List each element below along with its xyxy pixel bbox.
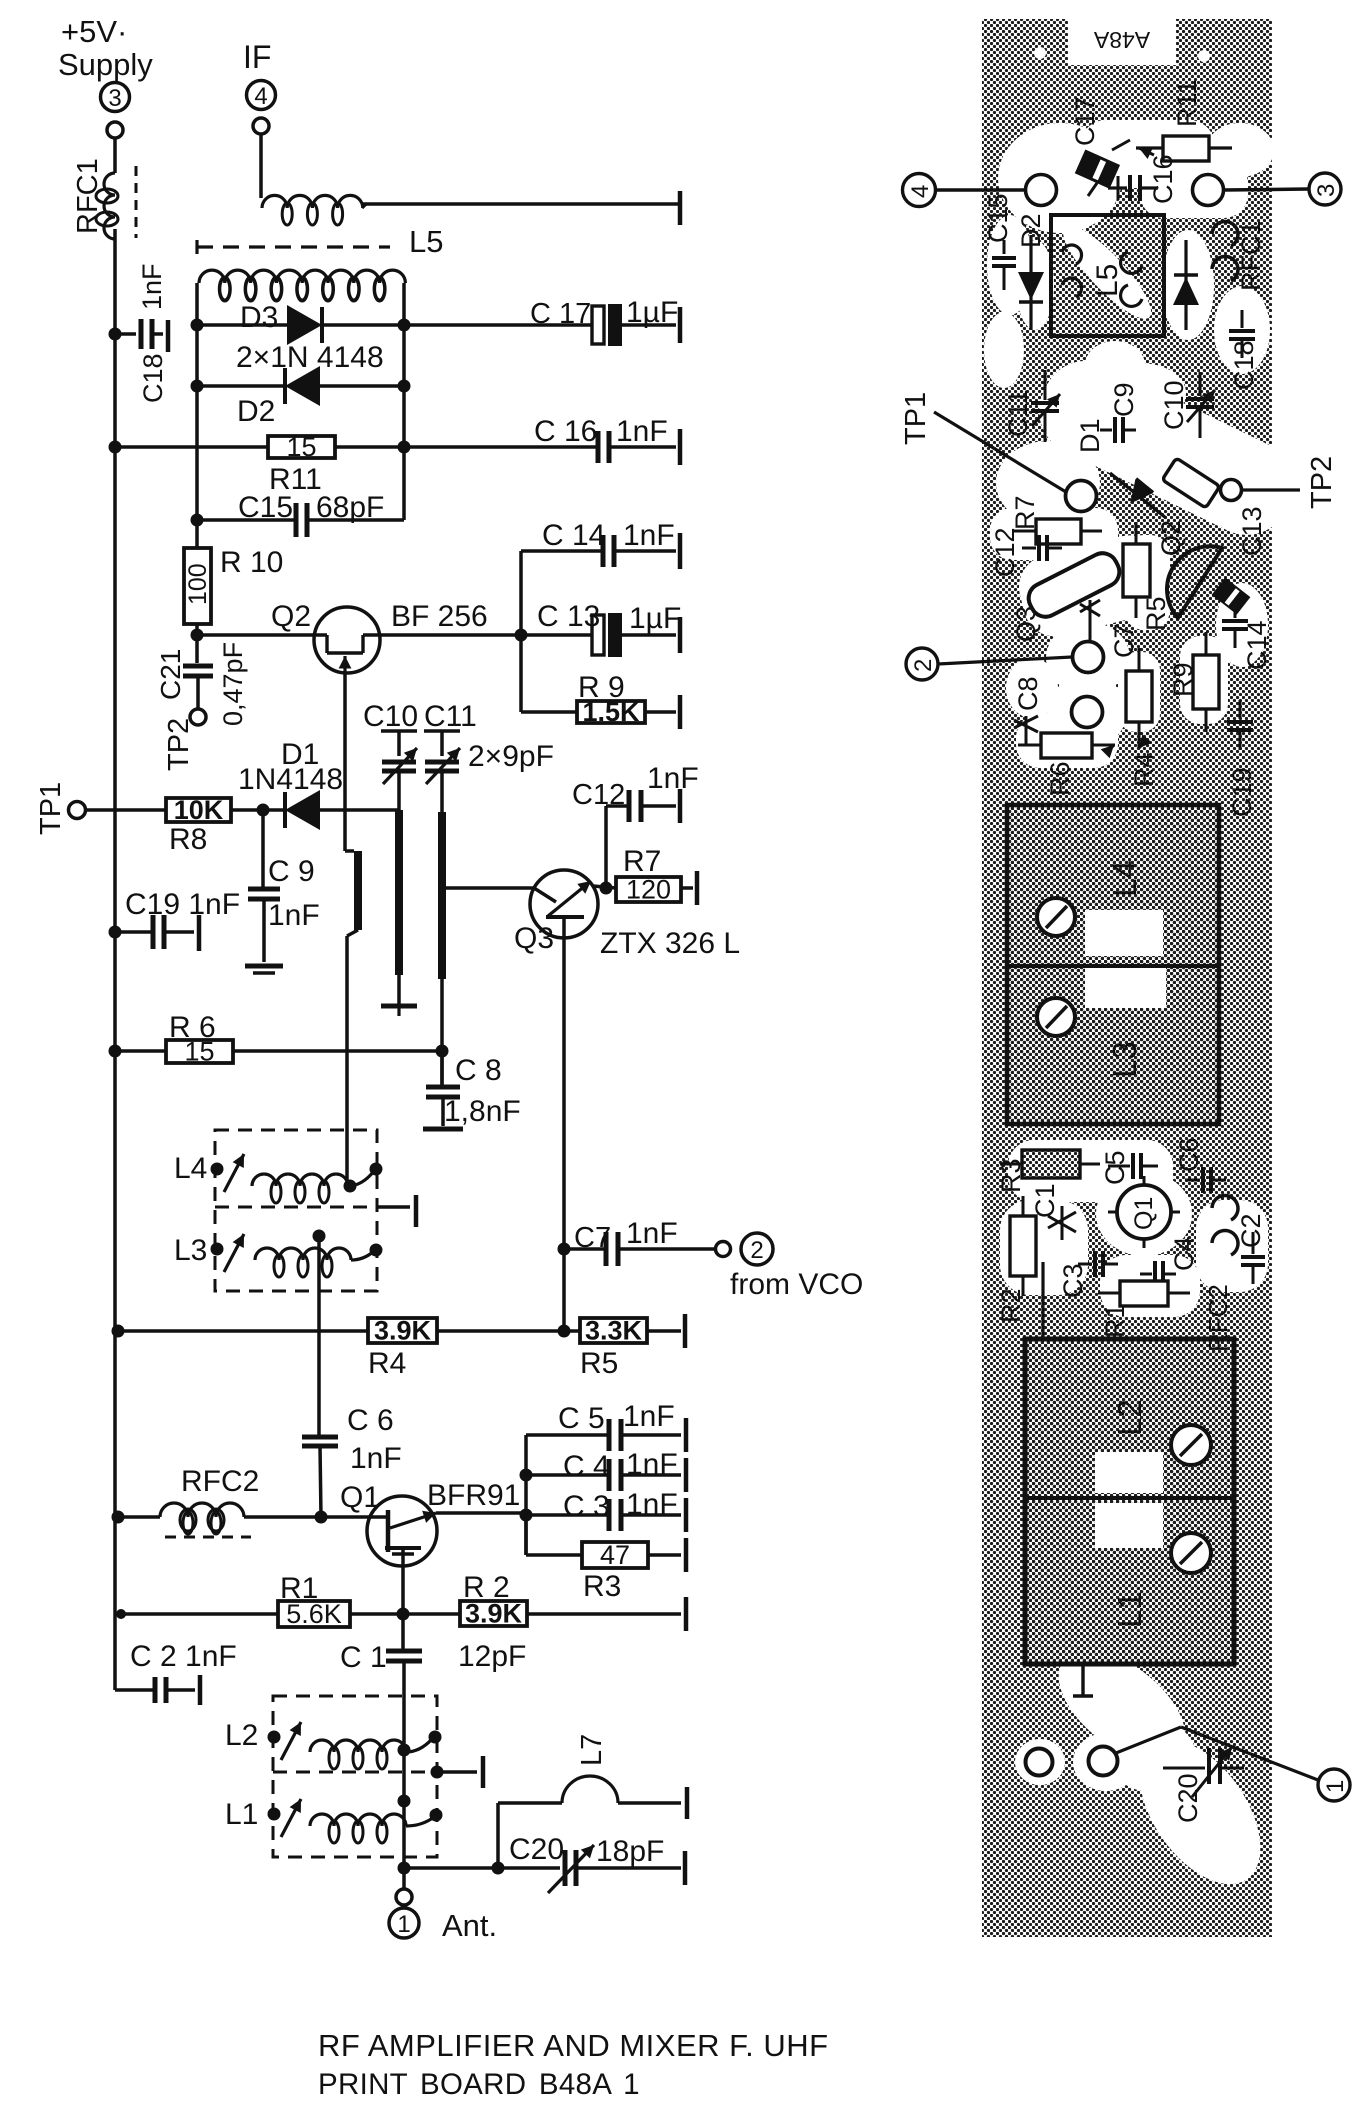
PCB screw hole top right [1198, 50, 1210, 62]
node R1 rail [116, 1609, 126, 1619]
wire RFC2 row [115, 1515, 367, 1519]
svg-text:C7: C7 [574, 1222, 611, 1254]
box L2 L1 shield [273, 1696, 483, 1857]
label 2x1N4148 [236, 341, 384, 374]
PCB resistor R1 [1098, 1281, 1190, 1338]
svg-text:Supply: Supply [58, 47, 153, 82]
svg-text:PRINT BOARD B48A 1: PRINT BOARD B48A 1 [318, 2068, 640, 2101]
capacitor C3 [526, 1488, 686, 1532]
inductor L5 [199, 270, 405, 301]
PCB capacitor C17 [1070, 96, 1130, 196]
svg-text:C 17: C 17 [530, 298, 591, 330]
svg-text:R8: R8 [169, 823, 207, 856]
PCB pad bottom1 [1026, 1749, 1053, 1776]
PCB diode D2 [1016, 213, 1046, 330]
svg-text:1µF: 1µF [626, 296, 678, 329]
svg-text:L5: L5 [409, 224, 443, 259]
inductor L4 [174, 1152, 383, 1203]
PCB label L4 [1106, 860, 1143, 897]
tick IF line end [678, 191, 683, 225]
svg-text:C 13: C 13 [537, 600, 600, 633]
diode D1 [238, 738, 399, 830]
svg-text:C 1: C 1 [340, 1641, 387, 1674]
svg-text:C6: C6 [1174, 1137, 1204, 1172]
node D3 right [398, 319, 411, 332]
svg-text:2×9pF: 2×9pF [468, 740, 554, 773]
svg-text:+5V·: +5V· [61, 14, 127, 49]
PCB capacitor C5 [1100, 1150, 1158, 1185]
PCB screw L3 [1037, 998, 1075, 1036]
svg-text:C19 1nF: C19 1nF [125, 888, 240, 921]
PCB label L3 [1106, 1041, 1143, 1078]
wire Q2 drain [380, 633, 592, 637]
svg-text:4: 4 [907, 185, 934, 198]
label 2x9pF [468, 740, 554, 773]
node D3 left [191, 319, 204, 332]
svg-text:Q1: Q1 [1130, 1197, 1158, 1230]
svg-text:C13: C13 [1237, 506, 1267, 556]
PCB clearing Q3 R5 [1012, 529, 1268, 667]
wire Q3 collector [562, 938, 566, 1331]
capacitor C12 [572, 762, 699, 888]
svg-text:1nF: 1nF [626, 1488, 678, 1521]
ground C8 [423, 1127, 463, 1132]
PCB capacitor C3 [1058, 1251, 1118, 1298]
svg-text:IF: IF [243, 39, 271, 75]
node C18 junction [109, 328, 122, 341]
svg-text:0,47pF: 0,47pF [218, 642, 248, 726]
svg-text:BF 256: BF 256 [391, 600, 488, 633]
resistor R6 [166, 1011, 233, 1067]
svg-text:3: 3 [1313, 184, 1340, 197]
svg-text:C1: C1 [1030, 1183, 1060, 1218]
node RFC2 rail [112, 1511, 125, 1524]
ground stripline C10 [381, 1006, 417, 1016]
svg-text:1nF: 1nF [626, 1448, 678, 1481]
PCB clearing L5 right [984, 230, 1270, 388]
PCB capacitor C14 [1222, 602, 1272, 670]
tick R2 end [684, 1597, 689, 1631]
capacitor C19 [115, 888, 240, 951]
node R11 right [398, 441, 411, 454]
capacitor C8 [426, 1051, 521, 1128]
diode D3 [197, 301, 404, 345]
svg-text:C 16: C 16 [534, 415, 597, 448]
svg-text:R1: R1 [1100, 1303, 1130, 1338]
svg-text:18pF: 18pF [596, 1835, 664, 1868]
svg-text:68pF: 68pF [316, 491, 384, 524]
svg-text:C15: C15 [238, 491, 293, 524]
svg-text:C3: C3 [1058, 1263, 1088, 1298]
PCB pad bottom2 [1089, 1747, 1118, 1776]
wire +5V rail [113, 229, 117, 1690]
svg-text:C15: C15 [983, 193, 1013, 243]
PCB screw L4 [1037, 898, 1075, 936]
node C19 rail [109, 926, 122, 939]
PCB capacitor C16 [1108, 154, 1178, 204]
svg-text:1nF: 1nF [623, 519, 675, 552]
wire R6 row [115, 1049, 442, 1053]
wire +5V rail top [113, 138, 117, 173]
svg-text:BFR91: BFR91 [427, 1479, 520, 1512]
svg-text:R 2: R 2 [463, 1571, 510, 1604]
resistor R1 [278, 1572, 350, 1629]
svg-text:3.3K: 3.3K [585, 1316, 643, 1346]
capacitor C13 (1uF) [537, 600, 681, 657]
svg-text:C 4: C 4 [563, 1450, 610, 1483]
svg-text:C2: C2 [1236, 1213, 1266, 1248]
PCB capacitor C12 [990, 527, 1062, 577]
inductor L5 dashed callout [197, 224, 443, 259]
svg-text:RF AMPLIFIER AND MIXER F. UHF: RF AMPLIFIER AND MIXER F. UHF [318, 2028, 829, 2063]
stripline C11 [438, 812, 446, 1087]
PCB screw L2 [1171, 1425, 1211, 1465]
PCB capacitor C4 [1140, 1236, 1199, 1287]
node Q1 base junction [315, 1511, 328, 1524]
node 3 PCB pad [1193, 173, 1342, 206]
svg-text:4: 4 [254, 83, 267, 110]
PCB resistor R8 [1162, 458, 1220, 508]
svg-text:R7: R7 [623, 845, 661, 878]
PCB box L4 L3 [1007, 805, 1219, 1124]
PCB label L1 [1111, 1591, 1148, 1628]
svg-text:1: 1 [397, 1911, 410, 1938]
svg-text:A48A: A48A [1093, 27, 1150, 53]
resistor R5 [580, 1314, 685, 1380]
PCB wire R2 to box [1041, 1262, 1044, 1339]
wire C5 bus [524, 1435, 528, 1555]
transistor Q3 ZTX326L [514, 870, 740, 960]
svg-text:C12: C12 [990, 527, 1020, 577]
wire L5 left leg [195, 283, 199, 520]
capacitor C11 trimmer [424, 731, 460, 812]
resistor R11 [268, 432, 335, 496]
node 4 PCB pad [903, 174, 1057, 207]
svg-text:C 3: C 3 [563, 1490, 610, 1523]
svg-text:1nF: 1nF [623, 1400, 675, 1433]
svg-text:2×1N 4148: 2×1N 4148 [236, 341, 384, 374]
svg-text:C20: C20 [509, 1833, 564, 1866]
node C15 left [191, 514, 204, 527]
PCB label L2 [1111, 1399, 1148, 1436]
svg-text:12pF: 12pF [458, 1640, 526, 1673]
capacitor C18 [115, 263, 168, 403]
wire L3 tap to C6 [317, 1236, 321, 1437]
PCB capacitor C1 [1030, 1183, 1076, 1240]
svg-text:R3: R3 [583, 1570, 621, 1603]
wire L5 right leg [402, 283, 406, 447]
svg-text:R6: R6 [1045, 761, 1075, 796]
wire Q1 collector [436, 1511, 526, 1515]
svg-text:RFC2: RFC2 [181, 1465, 259, 1498]
svg-text:TP1: TP1 [900, 392, 932, 445]
PCB capacitor C11 [1003, 370, 1060, 442]
inductor L3 [174, 1230, 383, 1278]
node C7 junction [558, 1243, 571, 1256]
PCB capacitor C19 [1227, 700, 1257, 817]
wire IF lead [259, 134, 263, 198]
capacitor C16 [534, 415, 680, 465]
node R4 rail [112, 1325, 125, 1338]
PCB inductor RFC1 [1212, 220, 1266, 291]
node Q2 gate junction [191, 629, 204, 642]
capacitor C15 [238, 491, 384, 537]
node C20 junction [492, 1862, 505, 1875]
PCB screw L1 [1171, 1533, 1211, 1573]
node R4 right [558, 1325, 571, 1338]
PCB resistor R2 [996, 1196, 1036, 1323]
node R11 rail [109, 441, 122, 454]
terminal TP1 [35, 782, 86, 835]
PCB board halftone [982, 19, 1272, 1937]
svg-text:RFC2: RFC2 [1203, 1284, 1233, 1352]
svg-text:R1: R1 [280, 1572, 318, 1605]
svg-text:1nF: 1nF [268, 899, 320, 932]
svg-text:C11: C11 [424, 700, 477, 733]
svg-text:2: 2 [910, 659, 937, 672]
PCB clearing pads2 [1006, 622, 1130, 768]
wire R8 to D1 [231, 808, 285, 812]
capacitor C9 [248, 810, 320, 962]
svg-text:L7: L7 [576, 1734, 608, 1766]
svg-text:Q2: Q2 [1156, 520, 1186, 556]
PCB resistor R7 [1010, 495, 1102, 544]
capacitor C1 [340, 1614, 526, 1750]
svg-text:R11: R11 [1172, 79, 1202, 127]
svg-text:C12: C12 [572, 779, 625, 811]
wire C14 branch [521, 551, 603, 635]
svg-text:TP2: TP2 [163, 718, 195, 771]
svg-text:C 8: C 8 [455, 1054, 502, 1087]
PCB transistor Q1 [1108, 1176, 1180, 1248]
svg-text:L1: L1 [225, 1798, 258, 1831]
svg-text:1nF: 1nF [616, 415, 668, 448]
wire C20 row [404, 1866, 560, 1870]
svg-text:1N4148: 1N4148 [238, 763, 343, 796]
capacitor C5 [526, 1400, 686, 1452]
title text [318, 2028, 829, 2101]
PCB resistor R3 [996, 1150, 1100, 1193]
terminal Ant [389, 1868, 497, 1943]
svg-text:from VCO: from VCO [730, 1268, 863, 1301]
node antenna junction [398, 1862, 411, 1875]
wire C15 row [197, 447, 404, 520]
svg-text:L5: L5 [1091, 264, 1124, 297]
svg-text:L4: L4 [174, 1152, 207, 1185]
PCB pad mid2 [1072, 697, 1103, 728]
svg-text:3: 3 [108, 85, 121, 112]
svg-text:10K: 10K [174, 795, 224, 825]
PCB stub below L1 box [1073, 1664, 1093, 1696]
wire R1 row [115, 1612, 681, 1616]
wire R3 branch [526, 1515, 582, 1555]
svg-text:D3: D3 [240, 301, 278, 334]
PCB inductor RFC2 [1203, 1195, 1238, 1352]
svg-text:R 9: R 9 [578, 671, 625, 704]
capacitor C6 [302, 1404, 402, 1517]
capacitor C4 [526, 1448, 686, 1492]
svg-text:2: 2 [750, 1237, 763, 1264]
node C3 junction [520, 1509, 533, 1522]
svg-text:C21: C21 [155, 649, 186, 700]
svg-text:L3: L3 [1106, 1041, 1143, 1078]
stripline C10 [395, 810, 403, 1004]
PCB capacitor C13 [1212, 506, 1267, 614]
PCB inductor L5 box [1051, 215, 1164, 336]
svg-text:L2: L2 [225, 1719, 258, 1752]
node C13 junction [515, 629, 528, 642]
svg-text:1nF: 1nF [647, 762, 699, 795]
ground C9 [245, 966, 283, 973]
label C11 [424, 700, 477, 733]
node 2 PCB pad [906, 642, 1104, 681]
svg-text:1µF: 1µF [629, 602, 681, 635]
node R7 junction [600, 882, 613, 895]
node R6 rail [109, 1045, 122, 1058]
svg-text:C4: C4 [1169, 1236, 1199, 1271]
PCB resistor R5 [1123, 522, 1171, 631]
PCB testpoint TP1 [900, 392, 1097, 512]
wire R11 row [115, 445, 598, 449]
resistor R3 [582, 1538, 686, 1603]
wire R9 branch [521, 635, 577, 712]
svg-text:Q1: Q1 [340, 1481, 380, 1514]
PCB capacitor C18b [1229, 310, 1259, 390]
node D1 anode [257, 804, 270, 817]
PCB testpoint TP2 [1221, 456, 1339, 509]
wire antenna line [402, 1750, 406, 1868]
PCB transistor Q2 [1156, 520, 1222, 618]
inductor L7 [498, 1734, 687, 1868]
wire TP1 to R8 [86, 808, 166, 812]
node 3 (+5V supply terminal) [58, 14, 153, 138]
svg-text:1: 1 [1322, 1780, 1349, 1793]
capacitor C7 [564, 1217, 715, 1266]
capacitor C17 (1uF) [530, 296, 680, 346]
svg-text:100: 100 [184, 563, 212, 605]
capacitor C20 trimmer [509, 1833, 685, 1893]
PCB clearing top [987, 120, 1274, 330]
svg-text:C 9: C 9 [268, 855, 315, 888]
svg-text:C19: C19 [1227, 767, 1257, 817]
PCB clearing R4 R9 [1118, 636, 1228, 732]
node D2 left [191, 380, 204, 393]
svg-text:C9: C9 [1109, 382, 1139, 417]
PCB diode D1 [1075, 418, 1166, 518]
svg-text:C18: C18 [1229, 340, 1259, 390]
svg-text:C11: C11 [1003, 389, 1033, 437]
PCB capacitor C2 [1236, 1213, 1266, 1284]
terminal TP2 [163, 709, 206, 771]
PCB transistor Q3 [1011, 548, 1124, 642]
PCB capacitor C15 [983, 193, 1016, 290]
wire Q3 base [442, 886, 534, 890]
svg-text:1nF: 1nF [626, 1217, 678, 1250]
wire C17 row [404, 323, 592, 327]
label C10 [363, 700, 418, 733]
box L4 L3 shield [215, 1130, 416, 1291]
svg-text:C 5: C 5 [558, 1402, 605, 1435]
svg-text:C5: C5 [1100, 1150, 1130, 1185]
capacitor C14 [542, 519, 680, 569]
wire R4 row [115, 1329, 580, 1333]
svg-text:1nF: 1nF [350, 1442, 402, 1475]
svg-text:L2: L2 [1111, 1399, 1148, 1436]
PCB capacitor C6b [1174, 1137, 1226, 1193]
svg-text:L3: L3 [174, 1234, 207, 1267]
PCB capacitor C10 [1159, 372, 1215, 438]
terminal from VCO [716, 1233, 864, 1301]
svg-text:ZTX 326 L: ZTX 326 L [600, 927, 740, 960]
PCB capacitor C7 [1080, 600, 1139, 658]
svg-text:C 2 1nF: C 2 1nF [130, 1640, 237, 1673]
PCB clearing bottom crescent [1015, 1629, 1285, 1906]
svg-text:C7: C7 [1109, 623, 1139, 658]
node C4 junction [520, 1469, 533, 1482]
inductor L1 [225, 1795, 443, 1844]
PCB diode D3 [1173, 240, 1199, 330]
resistor R2 [460, 1571, 527, 1629]
svg-text:C20: C20 [1173, 1773, 1203, 1823]
svg-text:3.9K: 3.9K [374, 1316, 432, 1346]
svg-text:120: 120 [626, 875, 671, 905]
svg-text:47: 47 [600, 1540, 630, 1570]
svg-text:C17: C17 [1070, 96, 1100, 146]
svg-text:C10: C10 [1159, 380, 1189, 430]
PCB top notch [1068, 19, 1176, 65]
svg-text:C8: C8 [1013, 676, 1043, 711]
svg-text:R 10: R 10 [220, 546, 283, 579]
capacitor C2 [115, 1640, 237, 1705]
inductor RFC2 [160, 1465, 259, 1537]
svg-text:1nF: 1nF [137, 263, 167, 310]
svg-text:Q3: Q3 [514, 922, 554, 955]
PCB capacitor C20 [1163, 1747, 1244, 1823]
PCB clearing mid2 [1000, 1140, 1268, 1317]
wire Q2 source line [345, 673, 362, 1186]
PCB box L2 L1 [1025, 1339, 1234, 1664]
svg-text:C16: C16 [1148, 154, 1178, 204]
svg-text:Q2: Q2 [271, 600, 311, 633]
svg-text:D2: D2 [237, 395, 275, 428]
node 1 PCB [1116, 1727, 1350, 1801]
node R6 right [436, 1045, 449, 1058]
PCB resistor R6 [1018, 733, 1115, 796]
svg-text:C10: C10 [363, 700, 418, 733]
svg-text:R 6: R 6 [169, 1011, 216, 1044]
transistor Q1 BFR91 [340, 1479, 520, 1566]
svg-text:RFC1: RFC1 [1236, 220, 1266, 291]
svg-text:R4: R4 [368, 1347, 406, 1380]
inductor IF choke [262, 195, 680, 225]
svg-text:15: 15 [286, 432, 316, 462]
wire Q2 gate [197, 633, 316, 637]
svg-text:RFC1: RFC1 [72, 158, 104, 234]
PCB capacitor C8 [1013, 676, 1043, 746]
node R1 right [397, 1608, 410, 1621]
svg-text:L4: L4 [1106, 860, 1143, 897]
resistor R9 [577, 671, 680, 729]
svg-text:L1: L1 [1111, 1591, 1148, 1628]
svg-text:TP2: TP2 [1306, 456, 1338, 509]
svg-text:R5: R5 [580, 1347, 618, 1380]
PCB screw hole top left [1034, 47, 1046, 59]
PCB clearing mid diagonal [990, 341, 1309, 560]
svg-text:C 6: C 6 [347, 1404, 394, 1437]
capacitor C10 trimmer [381, 731, 417, 810]
svg-text:C 14: C 14 [542, 519, 605, 552]
PCB resistor R11 [1136, 79, 1232, 161]
